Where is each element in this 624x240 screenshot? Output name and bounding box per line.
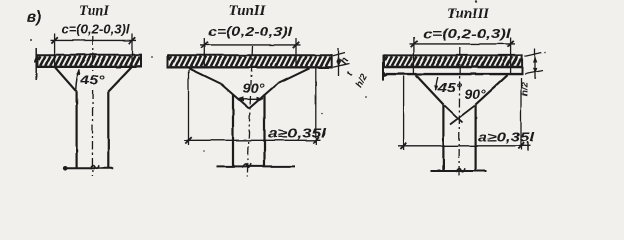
right end cap lower fig3 [521, 67, 523, 75]
extension line left fig3 [413, 37, 415, 74]
dim tick a right fig2 [313, 137, 319, 143]
drop panel underside fig3 [386, 73, 523, 75]
base line fig1 [64, 167, 113, 169]
45deg leader fig1 [76, 70, 79, 90]
slab-edge arrow fig1 [35, 48, 37, 80]
slab fig2 outline [167, 54, 333, 56]
base line fig3 [431, 170, 487, 172]
svg-text:45°: 45° [79, 72, 105, 87]
column left line fig2 [232, 94, 234, 166]
svg-text:ТипII: ТипII [229, 3, 267, 19]
dim line c fig2 [200, 44, 301, 46]
extension line left fig1 [54, 34, 56, 68]
dim line a fig3 [398, 145, 530, 147]
break squiggle fig3 [456, 168, 465, 172]
svg-text:c=(0,2-0,3)l: c=(0,2-0,3)l [208, 24, 292, 39]
scan specks [475, 0, 477, 2]
svg-text:a≥0,35l: a≥0,35l [268, 127, 327, 141]
centerline fig3 [458, 47, 461, 177]
slab fig1 outline [36, 54, 142, 56]
column left line fig1 [75, 92, 77, 168]
base line fig2 [217, 165, 295, 167]
svg-text:a≥0,35l: a≥0,35l [478, 131, 535, 145]
dim tick right fig1 [129, 37, 135, 43]
svg-text:c=(0,2-0,3)l: c=(0,2-0,3)l [62, 22, 130, 37]
capital slope left fig3 [416, 75, 443, 104]
dim line a fig2 [184, 139, 321, 141]
capital trapezoid fig1 [55, 67, 132, 92]
angle double arrow fig2 [237, 98, 263, 100]
base dot fig1 [63, 166, 68, 171]
svg-text:h/2: h/2 [354, 72, 370, 90]
extension line a right fig3 [520, 78, 522, 150]
dim tick a right fig3 [518, 143, 524, 149]
capital gentle slopes fig2 [189, 68, 310, 84]
extension line right fig1 [131, 34, 133, 68]
dim tick left fig3 [411, 41, 417, 47]
column left line fig3 [442, 105, 444, 172]
extension line left fig2 [203, 38, 205, 68]
extension line a left fig3 [403, 76, 405, 150]
slab fig1 hatching [38, 56, 140, 66]
capital slope right fig3 [476, 75, 508, 104]
45deg leader fig3 [436, 77, 438, 90]
svg-text:ТипI: ТипI [79, 3, 110, 19]
left end cap extension fig3 [382, 55, 384, 81]
svg-text:90°: 90° [465, 88, 487, 102]
end bar a right fig3 [527, 142, 529, 152]
slab fig2 hatching [169, 56, 331, 66]
extension line a left fig2 [188, 70, 190, 145]
slab thickness dim h fig2 [333, 53, 345, 56]
break squiggle fig2 [242, 164, 251, 168]
dim tick left fig2 [201, 42, 207, 48]
slab fig3 outline [383, 54, 523, 56]
svg-text:ТипIII: ТипIII [447, 6, 490, 22]
dim line c fig3 [410, 43, 516, 45]
dim tick right fig2 [293, 42, 299, 48]
break squiggle fig1 [90, 165, 99, 169]
capital steep 90deg funnel fig2 [221, 84, 277, 109]
svg-text:c=(0,2-0,3)l: c=(0,2-0,3)l [423, 26, 511, 41]
svg-text:90°: 90° [243, 81, 266, 96]
extension line right fig3 [510, 37, 512, 74]
dim tick left fig1 [51, 37, 57, 43]
column right line fig1 [107, 92, 109, 168]
extension line a right fig2 [315, 68, 317, 145]
centerline fig2 [251, 46, 253, 86]
slab fig3 hatching [385, 56, 521, 66]
dim tick a left fig3 [400, 143, 406, 149]
svg-text:в): в) [27, 9, 42, 26]
column right line fig2 [263, 94, 265, 166]
svg-text:t: t [344, 69, 355, 77]
90deg X mark fig3 [445, 106, 475, 125]
dim tick right fig3 [507, 41, 513, 47]
dim tick a left fig2 [185, 137, 191, 143]
h/2 dim right fig3 [524, 53, 542, 57]
dim line c fig1 [51, 39, 137, 41]
centerline fig1 [92, 36, 94, 71]
column right line fig3 [475, 105, 477, 172]
extension line right fig2 [295, 38, 297, 68]
svg-text:h: h [339, 56, 352, 67]
